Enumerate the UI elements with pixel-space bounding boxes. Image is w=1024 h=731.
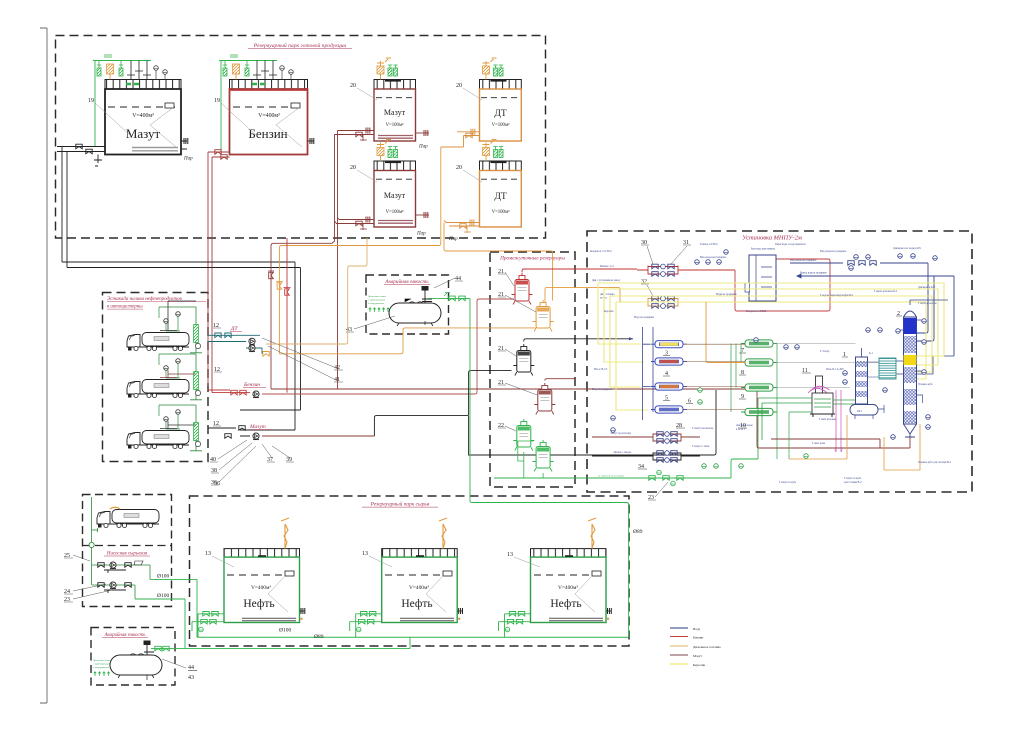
- unit: kerosene yellow nest: [598, 283, 944, 410]
- svg-text:Установка МНПУ-2м: Установка МНПУ-2м: [742, 235, 802, 242]
- svg-text:и оборудования: и оборудования: [368, 302, 385, 305]
- callout numbers 36-42: [210, 338, 343, 486]
- svg-text:Выход воды в градирню: Выход воды в градирню: [800, 272, 827, 275]
- svg-text:20: 20: [456, 83, 462, 89]
- tank Мазут V=100м3 lower (maroon): [350, 161, 416, 227]
- svg-text:для готовки В-2: для готовки В-2: [844, 481, 862, 484]
- svg-text:Бензин: Бензин: [243, 382, 260, 388]
- svg-text:Керосин: Керосин: [693, 663, 705, 667]
- svg-text:Пар: Пар: [416, 232, 426, 237]
- нефть tank 3: [499, 518, 612, 637]
- svg-text:Аварийная емкость: Аварийная емкость: [384, 278, 429, 285]
- svg-text:Ø100: Ø100: [157, 574, 169, 580]
- unit: manifold 30/31 red: [600, 240, 735, 276]
- svg-text:V=400м³: V=400м³: [258, 113, 280, 119]
- svg-text:Т мазута в кубе: Т мазута в кубе: [779, 481, 797, 484]
- svg-text:Вода на градирню: Вода на градирню: [634, 316, 654, 319]
- unit: cooling water manifold blue: [790, 247, 954, 374]
- svg-text:ДТ: ДТ: [494, 192, 506, 202]
- svg-text:Давление охл. воды в КХ: Давление охл. воды в КХ: [893, 247, 921, 250]
- svg-text:из емкостей на установку: из емкостей на установку: [598, 475, 625, 478]
- unit: water tank (blue box) with red steam loop: [590, 243, 830, 313]
- ДТ loading line teal + pumps: [208, 323, 263, 354]
- svg-text:Темпер. в Г.В.О.: Темпер. в Г.В.О.: [700, 243, 718, 246]
- tank1 top valve manifold (green/orange): [93, 55, 167, 147]
- box: Эстакада налива: [103, 293, 209, 462]
- box: Аварийная емкость (middle): [366, 275, 449, 334]
- svg-text:Воды на градирню: Воды на градирню: [716, 293, 737, 296]
- tank3 left/right piping (maroon): [335, 128, 430, 150]
- svg-text:Вход воды на градирню: Вход воды на градирню: [700, 256, 726, 259]
- box: Насосная сырьевая + truck bay: [83, 495, 172, 607]
- svg-text:Мазут: Мазут: [384, 108, 406, 117]
- pipe дизельное топливо tan loop left: [266, 238, 367, 344]
- аварийная емкость middle: cistern + arrows: [346, 276, 470, 333]
- box: Резервуарный парк готовой продукции: [56, 36, 546, 239]
- svg-text:Мазут: Мазут: [126, 126, 161, 141]
- svg-text:Пар: Пар: [448, 237, 458, 242]
- tank2 top valve manifold: [219, 55, 293, 152]
- unit: vessel КР-1: [850, 405, 884, 420]
- svg-text:и оборудования: и оборудования: [93, 666, 110, 669]
- svg-text:Вход воды на градирню: Вход воды на градирню: [790, 259, 816, 262]
- svg-text:44: 44: [188, 665, 194, 671]
- box: Установка МНПУ-2м: [587, 231, 972, 492]
- svg-text:V=400м³: V=400м³: [132, 113, 154, 119]
- аварийная емкость bottom: [93, 637, 410, 681]
- svg-text:19: 19: [88, 98, 94, 104]
- svg-text:Вода на градирню: Вода на градирню: [592, 388, 612, 391]
- svg-text:36: 36: [214, 481, 220, 487]
- svg-text:V=100м³: V=100м³: [492, 122, 510, 128]
- svg-text:Конденсат от Г.В.О.: Конденсат от Г.В.О.: [590, 250, 612, 253]
- svg-text:19: 19: [214, 98, 220, 104]
- svg-text:13: 13: [507, 552, 513, 558]
- pipe ДТ supply orange to loading: [263, 328, 536, 356]
- svg-text:Бак воды парогенерат.: Бак воды парогенерат.: [751, 248, 776, 251]
- tank6 top manifold: [483, 140, 507, 163]
- svg-text:Вход воды на градирню: Вход воды на градирню: [820, 250, 846, 253]
- pipe мазут-малый risers maroon: [268, 131, 338, 390]
- svg-text:ДТ: ДТ: [494, 109, 506, 119]
- unit: exchangers 7-10 (green): [706, 302, 777, 459]
- svg-text:Резервуарный парк сырья: Резервуарный парк сырья: [370, 501, 430, 508]
- unit: furnace П-1 (11): [758, 368, 844, 459]
- svg-text:Мазут: Мазут: [384, 191, 406, 200]
- pipe мазут на установку maroon long: [262, 389, 757, 436]
- svg-text:Ø100: Ø100: [279, 628, 291, 634]
- svg-text:Мазут: Мазут: [693, 654, 702, 658]
- svg-text:Пар: Пар: [418, 145, 428, 150]
- svg-text:Бензин с уст.: Бензин с уст.: [600, 265, 615, 268]
- Мазут loading line black + pump: [208, 421, 273, 440]
- pipe бензин pump discharge maroon long: [262, 299, 514, 394]
- svg-text:Давление воды: Давление воды: [736, 424, 753, 427]
- svg-text:Насос Н-2,3: Насос Н-2,3: [594, 368, 608, 371]
- tank Бензин V=400м3 (dark red): [214, 80, 314, 155]
- main green crude line: [197, 481, 643, 640]
- svg-text:Пары воды с подогревателя: Пары воды с подогревателя: [775, 243, 806, 246]
- svg-text:Т мазута в кубе: Т мазута в кубе: [844, 477, 862, 480]
- box: Промежуточные резервуары: [490, 252, 575, 487]
- svg-text:V=100м³: V=100м³: [386, 209, 404, 215]
- svg-text:20: 20: [350, 83, 356, 89]
- svg-text:Промежуточные резервуары: Промежуточные резервуары: [499, 256, 565, 262]
- tank1 bottom piping (black): [57, 144, 105, 267]
- tank2 bottom piping (maroon): [208, 150, 230, 393]
- svg-text:ДТ: ДТ: [230, 326, 238, 332]
- svg-text:Мазут: Мазут: [249, 424, 266, 430]
- svg-text:V=400м³: V=400м³: [251, 585, 271, 591]
- svg-text:Т мазута с печи: Т мазута с печи: [692, 445, 710, 448]
- svg-text:Резервуарный парк готовой прод: Резервуарный парк готовой продукции: [253, 42, 347, 49]
- unit: misc tiny instrument labels: [592, 243, 952, 484]
- svg-text:20: 20: [456, 165, 462, 171]
- svg-text:V=400м³: V=400м³: [409, 585, 429, 591]
- svg-text:Нефть: Нефть: [550, 598, 581, 610]
- svg-text:Вода: Вода: [693, 627, 701, 631]
- unit: misc connection lines: [592, 256, 937, 484]
- unit: manifold 32: [600, 279, 706, 308]
- tank5 left/right piping (maroon): [335, 212, 430, 237]
- trucks at эстакада: [127, 301, 202, 353]
- pipe бензин riser red with valve: [284, 238, 291, 393]
- unit: мазут bottom run maroon: [757, 433, 910, 448]
- green line from emergency tank down to сырьё: [470, 298, 629, 637]
- svg-text:Т низа печи: Т низа печи: [812, 442, 826, 445]
- tank ДТ V=100м3 lower (orange): [456, 161, 521, 227]
- svg-text:Т верха колонны К-2: Т верха колонны К-2: [874, 290, 898, 293]
- svg-text:Т низа колонны: Т низа колонны: [819, 418, 837, 421]
- svg-text:КР-1: КР-1: [857, 410, 863, 413]
- svg-text:в автоцистерны: в автоцистерны: [107, 305, 143, 310]
- Бензин loading line red + pump: [208, 367, 267, 398]
- svg-text:Печь П-1 А-30У: Печь П-1 А-30У: [826, 368, 844, 371]
- svg-text:13: 13: [362, 551, 368, 557]
- svg-text:V=100м³: V=100м³: [386, 122, 404, 128]
- svg-text:Давление в К-2: Давление в К-2: [918, 286, 936, 289]
- svg-text:Нефть: Нефть: [401, 598, 432, 610]
- svg-text:V=100м³: V=100м³: [492, 209, 510, 215]
- unit: cooler: [879, 358, 896, 379]
- svg-text:Дизель с завода: Дизель с завода: [614, 451, 632, 454]
- svg-text:Уровень куба для готовки В-2: Уровень куба для готовки В-2: [918, 461, 952, 464]
- unit: exchangers 3-6 (blue): [634, 316, 693, 420]
- pipe мазут riser black from tank1 down-left: [62, 262, 301, 430]
- насосная сырьевая truck + pumps: [64, 497, 197, 649]
- svg-text:Керосин: Керосин: [604, 310, 614, 313]
- pipe ДТ risers orange: [276, 147, 553, 354]
- tank ДТ V=100м3 upper (orange): [456, 80, 521, 142]
- unit: bottom manifolds 28/34: [592, 423, 714, 470]
- svg-text:Т верха колонны: Т верха колонны: [918, 302, 937, 305]
- svg-text:13: 13: [205, 551, 211, 557]
- legend: [670, 627, 721, 667]
- промежуточные vessels: [498, 269, 533, 305]
- tank5 top manifold: [377, 140, 401, 163]
- нефть tank 1: [192, 518, 305, 637]
- pipe мазут loading black step to black vessel: [374, 371, 716, 455]
- tank Мазут V=400м3 (black): [88, 80, 193, 162]
- svg-text:Т вод на перегонку нефти В-2: Т вод на перегонку нефти В-2: [820, 294, 854, 297]
- svg-text:Ø89: Ø89: [633, 529, 643, 535]
- unit: column К-1 (1): [833, 348, 874, 409]
- tank4 top manifold: [483, 58, 507, 81]
- svg-text:20: 20: [350, 165, 356, 171]
- unit: column К-2 (2) tall: [874, 290, 948, 437]
- нефть tank 2: [350, 518, 463, 637]
- svg-text:V=400м³: V=400м³: [558, 585, 578, 591]
- svg-text:Двк с установки на завод: Двк с установки на завод: [592, 279, 620, 282]
- svg-text:Т-3 вода: Т-3 вода: [820, 350, 830, 353]
- svg-text:Т мазута на выходе: Т мазута на выходе: [692, 427, 714, 430]
- svg-text:Аварийная емкость: Аварийная емкость: [104, 632, 147, 638]
- vessel connection pipes: [518, 269, 637, 478]
- tank Мазут V=100м3 upper (maroon): [350, 80, 416, 142]
- svg-text:Нефть: Нефть: [243, 598, 274, 610]
- svg-text:Уровень куба: Уровень куба: [918, 383, 934, 386]
- svg-text:Ø89: Ø89: [314, 634, 324, 640]
- box: Аварийная емкость (bottom): [91, 628, 175, 686]
- frame left border line: [40, 28, 47, 703]
- tank4 left piping (orange): [441, 129, 480, 147]
- svg-text:Бензин: Бензин: [693, 636, 703, 640]
- svg-text:Дизельное топливо: Дизельное топливо: [693, 645, 721, 649]
- svg-text:Пар: Пар: [183, 157, 193, 162]
- green manifold 23 на установку: [494, 459, 758, 501]
- svg-text:Конденсат в Г.В.О.: Конденсат в Г.В.О.: [746, 310, 767, 313]
- svg-text:Ø100: Ø100: [157, 593, 169, 599]
- tank3 top manifold: [377, 58, 401, 81]
- svg-text:43: 43: [188, 675, 194, 681]
- tank6 left piping (orange): [444, 220, 480, 234]
- box: Резервуарный парк сырья: [190, 496, 630, 646]
- svg-text:в А-30 У: в А-30 У: [736, 428, 746, 431]
